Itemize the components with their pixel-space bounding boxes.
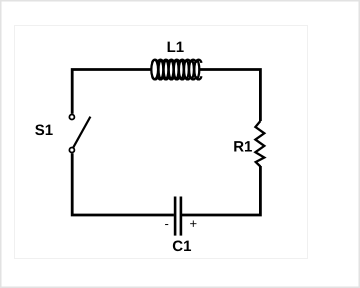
svg-text:R1: R1 xyxy=(233,139,252,156)
capacitor C1 left plate xyxy=(174,197,177,236)
wire resistor bottom to bottom-right corner to capacitor xyxy=(182,166,260,215)
inner frame xyxy=(15,26,308,259)
inductor L1 coil xyxy=(151,60,201,80)
svg-text:-: - xyxy=(165,216,169,231)
wire switch bottom to bottom-left corner to capacitor xyxy=(72,153,174,215)
svg-text:L1: L1 xyxy=(167,39,185,56)
switch S1 top terminal xyxy=(69,115,74,120)
wire top-left to switch xyxy=(72,70,151,114)
svg-text:C1: C1 xyxy=(172,238,191,255)
switch S1 blade xyxy=(73,117,91,149)
capacitor C1 right plate xyxy=(180,197,183,236)
svg-text:S1: S1 xyxy=(35,122,53,139)
resistor R1 zigzag xyxy=(255,121,264,167)
wire coil right to top-right corner down to resistor xyxy=(199,70,260,122)
svg-text:+: + xyxy=(190,216,198,231)
switch S1 bottom terminal xyxy=(69,148,74,153)
